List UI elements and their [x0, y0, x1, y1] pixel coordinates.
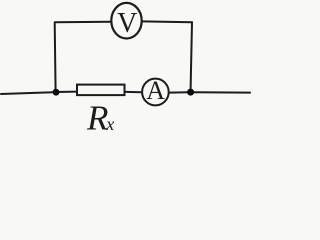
svg-text:A: A [146, 76, 165, 105]
svg-text:R: R [86, 98, 108, 135]
svg-text:V: V [117, 8, 137, 39]
svg-text:x: x [105, 114, 114, 134]
